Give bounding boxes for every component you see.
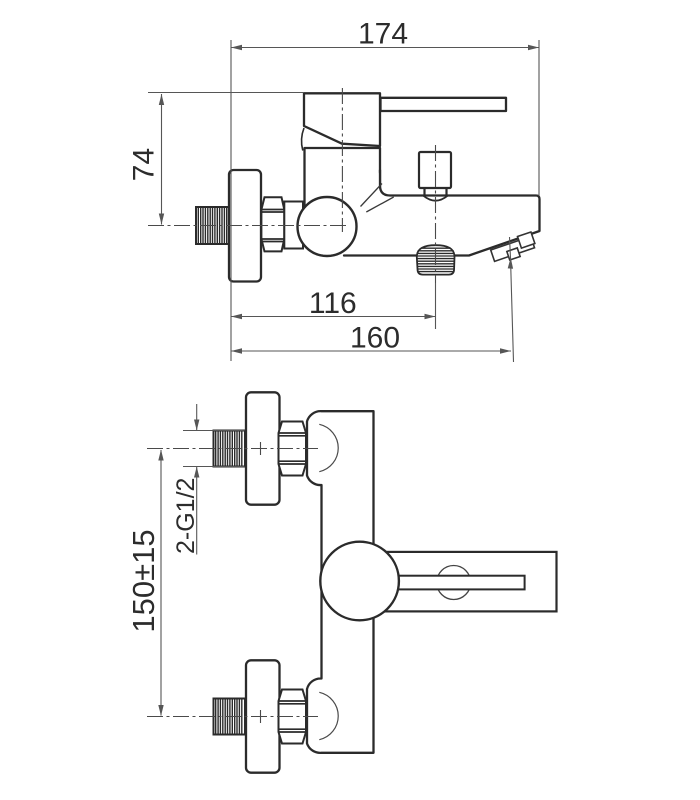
svg-text:2-G1/2: 2-G1/2 <box>172 478 200 554</box>
svg-text:150±15: 150±15 <box>126 529 161 632</box>
svg-text:174: 174 <box>358 18 408 51</box>
svg-text:116: 116 <box>309 287 357 320</box>
svg-text:160: 160 <box>350 322 400 355</box>
svg-text:74: 74 <box>128 148 161 181</box>
